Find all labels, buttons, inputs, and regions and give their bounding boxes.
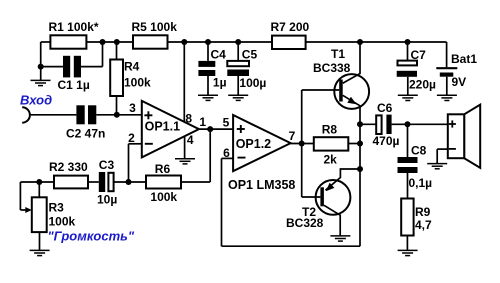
wire xyxy=(207,76,209,95)
svg-text:100µ: 100µ xyxy=(239,76,266,90)
wire xyxy=(88,181,99,183)
battery Bat1 xyxy=(436,52,477,89)
wire xyxy=(237,42,239,61)
svg-text:1µ: 1µ xyxy=(213,75,227,89)
svg-text:2k: 2k xyxy=(324,152,338,166)
svg-text:8: 8 xyxy=(185,111,192,125)
node xyxy=(299,141,305,147)
svg-text:4,7: 4,7 xyxy=(415,218,432,232)
transistor T2 xyxy=(286,169,360,236)
wire xyxy=(181,129,210,182)
svg-text:C1 1µ: C1 1µ xyxy=(58,78,90,92)
wire xyxy=(207,42,209,61)
svg-text:7: 7 xyxy=(289,129,296,143)
pin 1 label xyxy=(199,115,206,129)
wire xyxy=(348,143,360,145)
wire xyxy=(407,42,409,61)
ground xyxy=(31,80,51,85)
pin 5 label xyxy=(223,116,230,130)
resistor R9 xyxy=(401,199,432,236)
wire xyxy=(301,90,303,197)
svg-text:5: 5 xyxy=(223,116,230,130)
svg-text:3: 3 xyxy=(129,101,136,115)
svg-text:R8: R8 xyxy=(322,122,338,136)
svg-text:BC328: BC328 xyxy=(286,216,324,230)
node xyxy=(181,39,187,45)
resistor R5 xyxy=(132,20,178,48)
ground xyxy=(398,95,418,100)
wire xyxy=(392,123,448,125)
ground xyxy=(198,95,218,100)
speaker xyxy=(448,105,480,168)
wire xyxy=(86,41,133,43)
wire xyxy=(20,182,26,210)
svg-text:2: 2 xyxy=(128,131,135,145)
node xyxy=(357,39,363,45)
label Вход xyxy=(20,93,52,108)
node xyxy=(207,126,213,132)
capacitor C3 xyxy=(97,158,117,207)
svg-text:4: 4 xyxy=(187,133,194,147)
svg-text:OP1.2: OP1.2 xyxy=(236,137,271,151)
node xyxy=(114,39,120,45)
svg-text:1: 1 xyxy=(199,115,206,129)
capacitor C2 xyxy=(66,105,105,140)
capacitor C7 xyxy=(397,48,436,92)
svg-text:C3: C3 xyxy=(99,158,115,172)
node xyxy=(205,39,211,45)
svg-text:C8: C8 xyxy=(411,143,427,157)
svg-text:100k: 100k xyxy=(49,215,76,229)
wire xyxy=(446,42,448,67)
capacitor C6 xyxy=(373,101,400,148)
ground xyxy=(427,164,447,169)
pin 7 label xyxy=(289,129,296,143)
pin 2 label xyxy=(128,131,135,145)
wire xyxy=(306,41,447,43)
svg-text:Bat1: Bat1 xyxy=(451,52,477,66)
label OP1 LM358 xyxy=(228,178,295,192)
svg-text:BC338: BC338 xyxy=(313,61,351,75)
svg-text:100k: 100k xyxy=(150,190,177,204)
svg-text:C2 47n: C2 47n xyxy=(66,127,105,141)
svg-text:OP1 LM358: OP1 LM358 xyxy=(228,178,295,192)
wire xyxy=(81,42,103,67)
ground xyxy=(330,236,350,241)
ground xyxy=(228,95,248,100)
node xyxy=(357,166,363,172)
svg-text:10µ: 10µ xyxy=(97,193,117,207)
node xyxy=(100,39,106,45)
wire xyxy=(407,77,409,96)
wire xyxy=(222,158,361,246)
wire xyxy=(184,137,186,159)
svg-text:R7 200: R7 200 xyxy=(271,20,310,34)
op-amp OP1.1 xyxy=(142,101,199,158)
svg-text:100k: 100k xyxy=(124,76,151,90)
node xyxy=(38,64,44,70)
wire xyxy=(30,114,76,116)
wire xyxy=(96,114,142,116)
potentiometer R3 xyxy=(32,182,76,250)
node xyxy=(36,179,42,185)
svg-text:470µ: 470µ xyxy=(373,134,400,148)
wiper arrow xyxy=(25,207,32,213)
svg-text:C7: C7 xyxy=(411,48,427,62)
wire xyxy=(291,143,314,145)
svg-text:C4: C4 xyxy=(211,48,227,62)
wire xyxy=(406,236,408,251)
resistor R8 xyxy=(314,122,349,166)
svg-text:T1: T1 xyxy=(331,47,345,61)
transistor T1 xyxy=(302,42,369,109)
node xyxy=(126,179,132,185)
wire xyxy=(168,41,273,43)
svg-text:R6: R6 xyxy=(155,162,171,176)
resistor R6 xyxy=(146,162,181,204)
capacitor C1 xyxy=(58,56,90,92)
input connector xyxy=(22,107,30,122)
pin 6 label xyxy=(223,146,230,160)
svg-text:R9: R9 xyxy=(415,205,431,219)
resistor R7 xyxy=(271,20,310,49)
wire xyxy=(437,149,448,163)
wire xyxy=(183,42,185,122)
svg-text:R2 330: R2 330 xyxy=(49,160,88,174)
svg-text:R1 100k*: R1 100k* xyxy=(49,20,99,34)
capacitor C8 xyxy=(398,143,433,189)
svg-text:OP1.1: OP1.1 xyxy=(145,120,180,134)
svg-text:Вход: Вход xyxy=(20,93,52,108)
ground xyxy=(398,250,418,255)
label Громкость xyxy=(48,229,135,244)
svg-text:9V: 9V xyxy=(452,75,467,89)
resistor R2 xyxy=(49,160,88,189)
wire xyxy=(129,144,142,182)
svg-text:R5 100k: R5 100k xyxy=(132,20,178,34)
node xyxy=(357,141,363,147)
svg-text:0,1µ: 0,1µ xyxy=(409,176,433,190)
node xyxy=(405,121,411,127)
pin 4 label xyxy=(187,133,194,147)
pin 3 label xyxy=(129,101,136,115)
wire xyxy=(407,124,409,157)
node xyxy=(235,39,241,45)
wire xyxy=(407,173,409,199)
wire xyxy=(41,66,63,68)
node xyxy=(357,121,363,127)
wire xyxy=(199,128,233,130)
svg-text:"Громкость": "Громкость" xyxy=(48,229,135,244)
pin 8 label xyxy=(185,111,192,125)
node xyxy=(405,39,411,45)
wire xyxy=(237,76,239,95)
resistor R4 xyxy=(110,42,151,115)
ground xyxy=(437,95,457,100)
svg-text:C5: C5 xyxy=(242,48,258,62)
ground xyxy=(30,250,50,255)
resistor R1 xyxy=(49,20,99,48)
svg-text:220µ: 220µ xyxy=(409,78,436,92)
wire xyxy=(41,42,51,80)
capacitor C4 xyxy=(198,48,226,90)
svg-text:R4: R4 xyxy=(124,59,140,73)
wire xyxy=(359,106,361,246)
svg-text:R3: R3 xyxy=(49,200,65,214)
wire xyxy=(20,181,54,183)
wire xyxy=(360,123,376,125)
ground xyxy=(175,159,195,164)
node xyxy=(114,112,120,118)
wire xyxy=(446,77,448,96)
wire xyxy=(114,181,146,183)
capacitor C5 xyxy=(227,48,266,91)
svg-text:C6: C6 xyxy=(377,101,393,115)
op-amp OP1.2 xyxy=(233,115,291,171)
